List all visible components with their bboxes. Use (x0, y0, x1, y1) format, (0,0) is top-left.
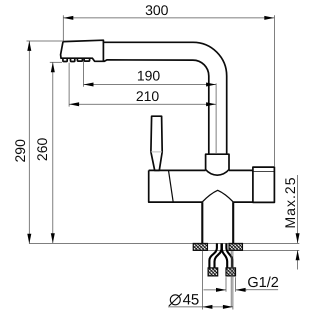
sectioned deck flange, left hatched block (193, 243, 207, 250)
faucet spout head, horizontal tube and 90-degree bend into vertical riser (61, 40, 227, 154)
aerator nozzle tooth 3 (77, 58, 82, 61)
lever seam band (151, 151, 162, 153)
arrowhead 300 left (63, 16, 73, 20)
right supply hose inner wall (222, 244, 227, 269)
mixer lever handle stick (151, 116, 162, 170)
right outlet cylinder (253, 167, 275, 202)
extension line right of 300 at outlet right edge (273, 15, 275, 167)
svg-text:190: 190 (137, 67, 161, 83)
svg-text:G1/2: G1/2 (247, 275, 278, 291)
svg-text:Max.25: Max.25 (282, 177, 298, 228)
svg-text:210: 210 (136, 88, 160, 104)
arrowhead 260 bottom (51, 233, 55, 243)
arrowhead 190 left (84, 83, 94, 87)
right outlet top seam line (253, 171, 275, 173)
dimension line 260 (outlet height) (52, 62, 54, 243)
dimension line 300 (overall width) (63, 17, 274, 19)
arrowhead 260 top (51, 62, 55, 72)
countertop bottom surface line (193, 249, 299, 251)
arrowhead 190 right (206, 83, 216, 87)
mounting shank walls down to deck (202, 202, 233, 243)
arrowhead 210 right (206, 102, 216, 106)
left hose G1/2 connector (hatched) (208, 268, 218, 276)
body cap seam (169, 170, 174, 202)
dimension line Max.25 lower segment (297, 250, 299, 269)
countertop top surface line (29, 242, 299, 244)
extension line at aerator bottom for 260 (50, 61, 62, 63)
extension line left of G1/2 at connector (225, 277, 227, 292)
aerator nozzle tooth 1 (63, 58, 67, 61)
arrowhead G1/2 right (236, 288, 246, 292)
svg-text:290: 290 (12, 139, 28, 163)
extension line from nozzle group 2 (83, 62, 85, 87)
dimension line G1/2 left tail (204, 289, 227, 291)
extension line left of 300 at spout head (62, 15, 64, 41)
arrowhead 300 right (264, 16, 274, 20)
leader underline below G1/2 label (244, 289, 278, 291)
left supply hose inner wall (215, 244, 222, 269)
arrowhead 290 top (27, 41, 31, 51)
horizontal body cylinder (149, 170, 253, 202)
extension line inner right near shank (230, 251, 232, 307)
riser collar boss on body (206, 154, 229, 175)
left supply hose outer wall (209, 244, 217, 269)
extension line right of dia45 at shank wall (232, 251, 234, 310)
extension line from nozzle group 1 (68, 63, 70, 107)
arrowhead Max.25 upper (296, 233, 300, 243)
arrowhead dia45 right (223, 305, 233, 309)
dimension line dia45 with underline below label (168, 306, 233, 308)
dimension line G1/2 right tail (236, 289, 247, 291)
extension line at riser axis (215, 83, 217, 153)
svg-text:260: 260 (34, 138, 50, 162)
diameter symbol of dia45 callout (169, 294, 182, 306)
aerator nozzle tooth 2 (71, 58, 75, 61)
right hose G1/2 connector (hatched) (226, 268, 236, 276)
arrowhead Max.25 lower (296, 250, 300, 260)
extension line at spout top for 290 (27, 40, 64, 42)
aerator nozzle tooth 4 (84, 58, 90, 61)
dimension line 290 (overall height) (28, 41, 30, 244)
svg-text:300: 300 (145, 2, 169, 18)
arrowhead 290 bottom (27, 234, 31, 244)
extension line left of dia45 at shank wall (201, 251, 203, 310)
shank/body intersection arch (202, 190, 233, 202)
arrowhead G1/2 left (216, 288, 226, 292)
arrowhead dia45 left (202, 305, 212, 309)
svg-text:45: 45 (183, 292, 200, 309)
sectioned deck flange, right hatched block (229, 243, 243, 250)
dimension line 210 (reach to spray nozzle 1) (69, 103, 216, 105)
extension line right of G1/2 at connector (235, 277, 237, 292)
right supply hose outer wall (226, 244, 232, 269)
dimension line Max.25 upper segment (297, 175, 299, 243)
arrowhead 210 left (69, 102, 79, 106)
dimension line 190 (reach to spray nozzle 2) (84, 84, 217, 86)
